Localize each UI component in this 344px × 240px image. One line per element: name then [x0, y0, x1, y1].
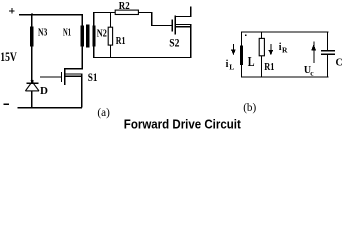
- svg-text:S2: S2: [169, 36, 179, 50]
- wire diode to bottom rail: [31, 91, 32, 109]
- svg-text:R: R: [282, 46, 288, 55]
- wire S2 source down: [190, 24, 191, 58]
- wire S2 gate vertical: [151, 12, 152, 26]
- transistor S2 gate bar: [172, 20, 173, 32]
- winding N2: [92, 26, 95, 47]
- wire R1 feed (b): [261, 32, 262, 39]
- transistor S1 channel bar: [64, 68, 65, 85]
- wire secondary top rail: [93, 12, 115, 13]
- svg-text:R2: R2: [119, 0, 130, 12]
- wire capacitor top: [327, 32, 328, 51]
- wire S1 source down: [81, 73, 82, 107]
- transistor S1 gate bar: [61, 72, 62, 82]
- inductor L winding bar: [240, 46, 243, 66]
- svg-text:D: D: [40, 85, 48, 97]
- wire box bottom (b): [241, 76, 328, 77]
- arrow iR: [270, 44, 271, 51]
- transistor S1 source leads: [65, 73, 81, 74]
- plus terminal: [9, 10, 14, 11]
- transistor S2 channel bar: [174, 16, 175, 35]
- wire N1 to S1 drain: [82, 46, 83, 69]
- wire N2 top feed: [93, 12, 94, 26]
- wire R2 to S2: [138, 12, 152, 13]
- svg-text:N1: N1: [63, 27, 71, 39]
- wire secondary bottom rail: [93, 57, 191, 58]
- wire capacitor bottom: [327, 55, 328, 77]
- svg-text:N3: N3: [38, 27, 48, 39]
- wire box left (b): [241, 32, 242, 78]
- wire R1 bottom (b): [261, 56, 262, 77]
- svg-text:(b): (b): [243, 102, 256, 114]
- wire top rail (a): [19, 14, 83, 15]
- svg-text:15V: 15V: [0, 49, 17, 64]
- transistor S1 drain lead: [65, 68, 83, 69]
- svg-text:i: i: [226, 59, 229, 70]
- wire N1 feed: [82, 14, 83, 26]
- diode D: [26, 83, 38, 84]
- wire S2 gate horizontal: [151, 25, 172, 26]
- diode D triangle: [25, 80, 39, 91]
- resistor R1 (b): [259, 38, 264, 55]
- svg-text:Forward Drive Circuit: Forward Drive Circuit: [124, 117, 242, 132]
- wire box top (b): [241, 32, 328, 33]
- node speck: [245, 34, 246, 35]
- resistor R2: [115, 10, 138, 14]
- svg-text:(a): (a): [97, 107, 110, 119]
- wire S2 drain up: [190, 6, 191, 17]
- svg-text:L: L: [248, 54, 255, 69]
- wire S1 gate lead: [40, 77, 61, 78]
- diode D apex dot: [31, 81, 33, 83]
- wire N2 bottom feed: [93, 46, 94, 57]
- svg-text:L: L: [229, 62, 234, 71]
- svg-text:S1: S1: [88, 70, 98, 84]
- svg-text:N2: N2: [97, 27, 107, 39]
- svg-text:R1: R1: [264, 62, 274, 73]
- transistor S2 drain lead: [176, 16, 191, 17]
- winding N3: [30, 26, 33, 46]
- arrow UC: [313, 42, 314, 64]
- resistor R1 (a): [108, 27, 112, 45]
- wire R1 bottom feed (a): [110, 45, 111, 57]
- wire R1 top feed (a): [110, 12, 111, 27]
- svg-text:C: C: [336, 58, 343, 69]
- wire N3 feed: [31, 14, 32, 26]
- node junction N3 top: [31, 14, 33, 16]
- wire bottom rail (a): [17, 107, 82, 108]
- minus terminal: [4, 103, 9, 104]
- winding N1: [81, 26, 84, 47]
- wire N3 to diode: [31, 47, 32, 83]
- svg-text:R1: R1: [116, 35, 126, 47]
- transistor S2 source leads: [176, 24, 192, 25]
- transformer core: [86, 25, 89, 48]
- svg-text:c: c: [310, 69, 314, 78]
- capacitor C plates: [321, 50, 335, 51]
- arrow iL: [233, 44, 234, 51]
